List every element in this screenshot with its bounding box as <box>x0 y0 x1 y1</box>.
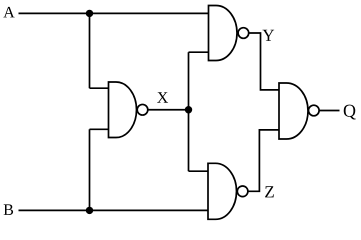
nand gate U4 body <box>279 83 308 139</box>
wire Q output <box>319 110 339 112</box>
wire Y to U4 <box>249 33 279 90</box>
nand gate U4 bubble <box>309 105 320 116</box>
wire A horizontal <box>19 12 209 14</box>
nand gate U3 body <box>208 163 237 219</box>
nand gate U1 bubble <box>137 104 148 115</box>
nand gate U1 body <box>109 82 137 138</box>
wire X output <box>148 109 189 111</box>
wire B horizontal <box>19 209 209 211</box>
label X <box>157 92 168 102</box>
wire X stub into U3 <box>189 170 209 172</box>
junction dot X <box>185 106 192 113</box>
wire A branch stub into U1 <box>90 87 109 89</box>
label A <box>3 7 14 18</box>
wire B branch stub into U1 <box>90 128 109 130</box>
label B <box>4 204 13 215</box>
wire X vertical <box>188 52 190 171</box>
wire X stub into U2 <box>189 51 209 53</box>
junction dot B <box>86 207 93 214</box>
wire Z to U4 <box>248 130 279 191</box>
nand gate U2 body <box>209 6 238 61</box>
label Q <box>344 105 356 120</box>
wire A branch vertical <box>89 13 91 88</box>
nand gate U2 bubble <box>238 28 249 39</box>
junction dot A <box>86 10 93 17</box>
label Y <box>262 30 274 41</box>
nand gate U3 bubble <box>237 186 248 197</box>
wire B branch vertical <box>89 129 91 210</box>
label Z <box>265 186 274 197</box>
